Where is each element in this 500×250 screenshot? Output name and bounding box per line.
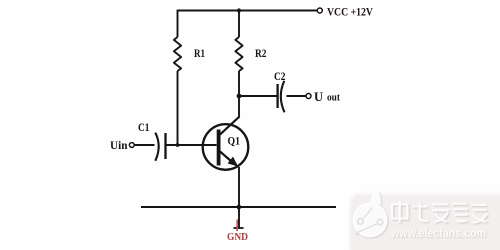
svg-text:C2: C2 (274, 69, 286, 83)
svg-text:Q1: Q1 (228, 136, 241, 148)
svg-text:GND: GND (227, 231, 248, 243)
wire emitter down (238, 167, 240, 207)
watermark text www.elecfans.com (390, 226, 487, 241)
wire R1 bottom lead (177, 71, 179, 145)
wire C1 to base (166, 144, 217, 146)
terminal U out (306, 94, 311, 99)
wire R2 bottom lead (238, 71, 240, 96)
junction collector node (237, 94, 242, 99)
capacitor C2 (278, 81, 285, 113)
wire C2 to output (287, 95, 306, 97)
svg-text:www.elecfans.com: www.elecfans.com (390, 226, 486, 240)
svg-text:R2: R2 (255, 46, 267, 60)
wire bottom rail (141, 206, 336, 208)
wire Uin to C1 (135, 144, 155, 146)
svg-text:Uin: Uin (110, 138, 128, 152)
wire collector node to transistor (238, 96, 240, 118)
junction base node (176, 143, 180, 147)
wire R2 top lead (238, 10, 240, 37)
wire top rail (178, 10, 318, 12)
svg-text:U: U (314, 90, 323, 104)
svg-text:out: out (327, 93, 341, 104)
ground (234, 207, 244, 231)
wire to C2 (239, 95, 277, 97)
resistor R1 (174, 37, 181, 71)
capacitor C1 (155, 133, 165, 161)
resistor R2 (235, 37, 242, 71)
transistor Q1 (203, 117, 249, 170)
terminal Uin (129, 143, 134, 148)
svg-text:C1: C1 (138, 120, 150, 134)
svg-text:VCC +12V: VCC +12V (327, 5, 373, 19)
svg-text:R1: R1 (194, 46, 205, 60)
watermark wash (350, 194, 500, 250)
watermark logo circle (354, 192, 388, 238)
watermark text 电子发烧友 (drawn strokes) (392, 201, 488, 224)
junction top rail / R2 (237, 8, 241, 12)
wire R1 top lead (177, 10, 179, 37)
junction emitter / rail (237, 205, 242, 210)
terminal VCC (317, 8, 322, 13)
